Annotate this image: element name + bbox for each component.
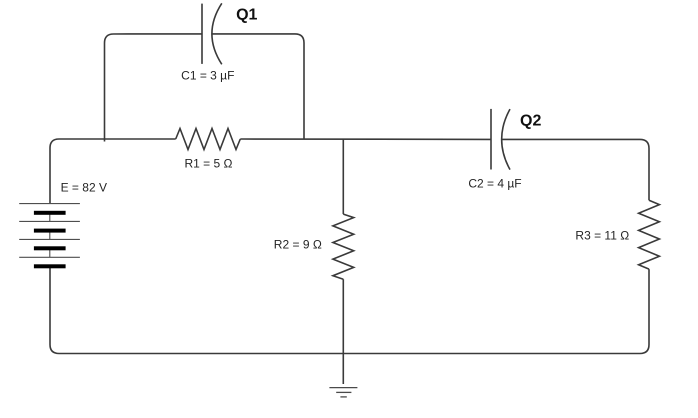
wire top rail from R1 to C2 [240,138,491,140]
wire R2 branch from top rail down [342,139,344,214]
capacitor C1 [202,3,222,64]
wire ground stem [342,354,344,385]
resistor R1 [176,129,241,150]
svg-text:Q1: Q1 [236,6,257,23]
wire C1 loop right side [212,34,304,139]
capacitor C2 [491,109,510,170]
svg-text:R3 = 11 Ω: R3 = 11 Ω [575,228,629,242]
svg-text:C1 = 3 µF: C1 = 3 µF [181,68,234,82]
ground [329,388,357,397]
resistor R2 [333,214,354,279]
svg-text:R2 = 9 Ω: R2 = 9 Ω [274,237,322,251]
svg-text:R1 = 5 Ω: R1 = 5 Ω [185,156,233,170]
wire bottom rail junction to bottom-left corner up to battery bottom [50,266,343,353]
wire C1 loop left side [105,34,203,142]
resistor R3 [639,200,660,269]
svg-text:Q2: Q2 [520,113,541,130]
wire left side top: battery top to top rail, to R1 [50,139,176,204]
battery E [19,204,80,269]
svg-text:C2 = 4 µF: C2 = 4 µF [468,176,521,190]
wire right side below R3 to bottom-right corner to bottom rail junction [343,269,649,353]
wire R2 bottom to rail [342,279,344,353]
svg-text:E = 82 V: E = 82 V [61,181,107,195]
wire top rail from C2 to top-right corner down to R3 [502,139,649,200]
